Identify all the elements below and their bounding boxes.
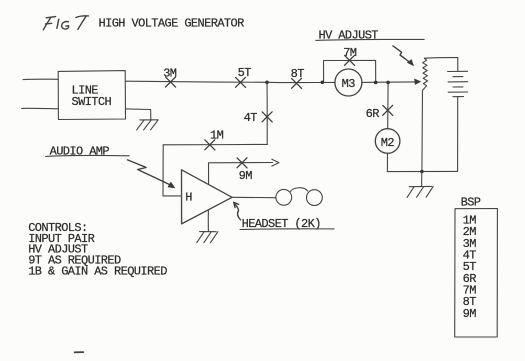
- wire 9M branch from op-amp top: [209, 163, 273, 185]
- underline of AUDIO AMP: [46, 154, 130, 157]
- switch contact X 7M: [345, 55, 355, 65]
- node junction at 6R branch: [386, 81, 390, 85]
- arrow from HEADSET to op-amp output: [234, 202, 241, 220]
- main wire LINE SWITCH to M3: [126, 81, 335, 82]
- wire 7M bypass loop: [324, 60, 376, 82]
- op-amp U1 triangle: [182, 170, 233, 224]
- svg-text:5T: 5T: [238, 66, 252, 80]
- switch contact X 3M: [166, 77, 176, 87]
- switch contact X 4T: [262, 112, 272, 122]
- arrow from HV ADJUST to potentiometer: [393, 46, 414, 66]
- node junction left of M3: [321, 81, 325, 85]
- wire down from 6R junction through X to M2: [387, 82, 389, 128]
- wire down to op-amp input: [163, 145, 182, 196]
- svg-text:1B & GAIN AS REQUIRED: 1B & GAIN AS REQUIRED: [28, 264, 167, 278]
- wire M3 to potentiometer wiper: [362, 81, 416, 84]
- title Fig 7 (handwritten): [43, 16, 88, 30]
- battery B1: [448, 71, 468, 96]
- svg-text:9M: 9M: [463, 307, 477, 321]
- potentiometer HV adjust (zigzag): [423, 58, 428, 90]
- arrowhead wiper into potentiometer: [414, 79, 421, 85]
- wire input top-left: [23, 78, 58, 80]
- wire battery bottom down: [457, 97, 459, 172]
- svg-text:M3: M3: [342, 77, 356, 91]
- underline of HEADSET (2K): [240, 228, 334, 231]
- switch contact X 5T: [236, 77, 246, 87]
- svg-text:7M: 7M: [343, 46, 357, 60]
- switch contact X 9M: [237, 158, 247, 168]
- switch contact X 6R: [383, 105, 393, 115]
- node junction right of M3: [374, 81, 378, 85]
- headset band arc: [290, 188, 307, 192]
- svg-text:3M: 3M: [163, 67, 177, 81]
- wire down to ground: [421, 172, 423, 187]
- page mark dash bottom: [75, 351, 84, 353]
- switch contact X 1M: [205, 140, 215, 150]
- switch contact X 8T: [292, 78, 302, 88]
- svg-text:9M: 9M: [239, 169, 253, 183]
- svg-text:SWITCH: SWITCH: [72, 95, 112, 109]
- wire potentiometer bottom to rail: [421, 90, 424, 171]
- wire M2 bottom to rail: [386, 153, 388, 171]
- headset left earpiece: [276, 189, 292, 205]
- meter M2: [375, 129, 400, 154]
- arrowhead of 9M branch: [272, 159, 279, 166]
- node junction at 4T branch: [265, 81, 269, 85]
- ground below LINE SWITCH: [137, 120, 159, 130]
- wire bottom rail: [387, 170, 457, 172]
- svg-text:1M: 1M: [210, 129, 224, 143]
- svg-text:M2: M2: [381, 136, 395, 150]
- box BSP list: [455, 209, 498, 338]
- ground below op-amp: [207, 211, 209, 232]
- svg-text:HIGH VOLTAGE GENERATOR: HIGH VOLTAGE GENERATOR: [99, 17, 245, 31]
- meter M3: [335, 69, 362, 96]
- svg-text:4T: 4T: [244, 111, 258, 125]
- headset right earpiece: [307, 190, 323, 206]
- box LINE SWITCH: [58, 71, 125, 120]
- underline of HV ADJUST: [316, 39, 424, 40]
- wire down from junction through 4T: [266, 82, 268, 144]
- arrow from AUDIO AMP to op-amp input: [128, 160, 176, 188]
- svg-text:BSP: BSP: [461, 196, 481, 210]
- svg-text:8T: 8T: [291, 67, 305, 81]
- node junction at ground drop: [420, 170, 424, 174]
- wire from LINE SWITCH to ground: [126, 109, 151, 120]
- svg-text:6R: 6R: [366, 107, 380, 121]
- ground below potentiometer rail: [407, 186, 433, 197]
- svg-text:H: H: [185, 191, 192, 205]
- wire op-amp output to headset: [232, 196, 276, 198]
- wire horizontal through 1M to op-amp: [163, 143, 267, 145]
- wire potentiometer top to battery top: [424, 58, 457, 72]
- wire input bottom-left: [22, 107, 59, 109]
